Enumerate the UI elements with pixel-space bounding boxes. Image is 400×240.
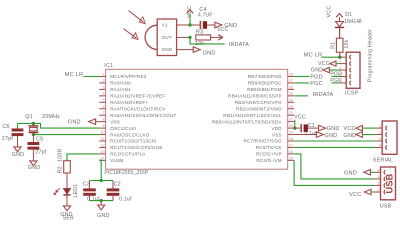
svg-text:RA1/AN1: RA1/AN1 xyxy=(110,87,131,92)
svg-text:SER: SER xyxy=(63,216,74,222)
SERIAL pin 3 xyxy=(376,137,387,143)
svg-text:OUT: OUT xyxy=(162,35,172,40)
IC1 pin 13 stub xyxy=(99,150,146,157)
svg-text:SERIAL: SERIAL xyxy=(373,158,393,164)
svg-text:0.1uf: 0.1uf xyxy=(87,196,100,202)
USB pin 2 xyxy=(374,182,385,188)
svg-text:VCC: VCC xyxy=(187,6,193,18)
IC1 pin 21 stub xyxy=(212,118,294,125)
ICSP pin 5 xyxy=(339,79,351,85)
svg-text:MC LR: MC LR xyxy=(304,53,322,59)
svg-text:9: 9 xyxy=(102,124,104,128)
svg-text:RA2/AN2/VREF-/CVREF: RA2/AN2/VREF-/CVREF xyxy=(110,94,165,99)
IC1 pin 3 stub xyxy=(99,85,131,92)
op-amp U1 IC1 PIC18F2550 body xyxy=(104,63,288,176)
wire RC7 to SERIAL pin 3 xyxy=(294,140,376,142)
svg-text:VCC: VCC xyxy=(343,126,355,132)
wire IR V+ to C4 xyxy=(177,24,200,26)
svg-text:5: 5 xyxy=(102,98,104,102)
IC1 pin 2 stub xyxy=(99,79,131,86)
IC1 pin 11 stub xyxy=(99,137,156,144)
svg-text:GND: GND xyxy=(324,133,337,139)
svg-text:MC LR: MC LR xyxy=(65,72,83,78)
svg-text:IRDATA: IRDATA xyxy=(229,42,249,48)
net label MCLR at pin 1 xyxy=(65,72,99,78)
svg-text:1: 1 xyxy=(377,188,379,192)
resistor R2 xyxy=(58,149,71,174)
svg-text:PGD: PGD xyxy=(310,75,323,81)
svg-text:VSS: VSS xyxy=(110,119,120,124)
svg-text:VSS: VSS xyxy=(272,132,282,137)
ground GND at C4 xyxy=(215,22,237,29)
svg-text:GND: GND xyxy=(203,50,216,56)
svg-text:21: 21 xyxy=(289,118,293,122)
svg-text:R2: R2 xyxy=(58,166,64,173)
ground GND at C1 xyxy=(319,125,340,132)
junction at IR V+ xyxy=(188,23,191,26)
ground GND at C5 xyxy=(28,161,41,171)
svg-text:11: 11 xyxy=(101,137,105,141)
supply VCC at D1 xyxy=(326,6,342,18)
svg-text:RA0/AN0: RA0/AN0 xyxy=(110,81,131,86)
junction crystal top xyxy=(32,122,35,125)
IC1 pin 17 stub xyxy=(256,143,294,150)
svg-text:1N4148: 1N4148 xyxy=(344,19,362,25)
junction crystal bottom xyxy=(32,133,35,136)
svg-text:GND: GND xyxy=(97,213,110,219)
IC1 pin 18 stub xyxy=(243,137,294,144)
svg-text:13: 13 xyxy=(100,150,104,154)
junction MCLR R1 xyxy=(338,56,341,59)
svg-text:6: 6 xyxy=(102,105,104,109)
svg-text:RC2/CCP1/P1A: RC2/CCP1/P1A xyxy=(110,152,146,157)
IC1 pin 10 stub xyxy=(99,131,150,138)
ground GND at pin 8 xyxy=(68,119,99,126)
SERIAL pin 4 xyxy=(376,144,387,150)
svg-text:V1: V1 xyxy=(162,23,168,28)
connector ICSP body xyxy=(345,29,373,97)
ground GND at SERIAL pin 2 xyxy=(343,132,376,139)
resistor R1 xyxy=(331,28,351,57)
svg-text:C6: C6 xyxy=(2,124,9,130)
svg-text:26: 26 xyxy=(289,85,293,89)
svg-text:Q1: Q1 xyxy=(25,114,33,120)
USB pin 3 xyxy=(374,175,385,181)
connector USB body xyxy=(380,167,396,210)
wire OSC2 net xyxy=(33,134,99,136)
supply VCC at USB pin 1 xyxy=(349,189,374,198)
svg-text:RC0/T1OSO/T13CKI: RC0/T1OSO/T13CKI xyxy=(110,139,156,144)
wire RC5 D+ to USB pin 3 xyxy=(294,154,374,179)
svg-text:27pf: 27pf xyxy=(35,150,47,156)
svg-text:GND: GND xyxy=(12,152,25,158)
svg-text:4: 4 xyxy=(379,144,381,148)
ground GND at LED1 xyxy=(60,206,74,222)
crystal Q1 xyxy=(25,114,60,135)
svg-text:10k: 10k xyxy=(344,39,350,48)
IC1 pin 12 stub xyxy=(99,143,162,150)
supply VCC at ICSP pin 2 xyxy=(318,61,340,67)
capacitor C1 xyxy=(295,123,317,137)
svg-text:22: 22 xyxy=(289,111,293,115)
supply VCC at R3 xyxy=(211,27,229,40)
IC1 pin 1 stub xyxy=(99,73,147,80)
wire OSC1 net xyxy=(18,123,100,128)
svg-text:C5: C5 xyxy=(36,136,43,142)
wire RC2 to R2 xyxy=(67,154,99,161)
svg-text:GND: GND xyxy=(68,120,81,126)
ICSP pin 3 xyxy=(339,66,351,72)
svg-text:2: 2 xyxy=(102,79,104,83)
svg-text:RB2/AN8/INT2/VMO: RB2/AN8/INT2/VMO xyxy=(236,106,282,111)
svg-text:27: 27 xyxy=(289,79,293,83)
svg-text:RC6/TX/CK: RC6/TX/CK xyxy=(256,145,283,150)
svg-text:R3: R3 xyxy=(196,30,203,36)
svg-text:1: 1 xyxy=(379,124,381,128)
svg-text:17: 17 xyxy=(289,143,293,147)
IC1 pin 19 stub xyxy=(272,131,294,138)
svg-text:4: 4 xyxy=(102,92,104,96)
ground GND at ICSP pin 3 xyxy=(311,67,340,73)
USB pin 1 xyxy=(374,188,385,194)
svg-text:4.7UF: 4.7UF xyxy=(198,12,213,18)
IC1 pin 4 stub xyxy=(99,92,165,99)
ICSP pin 4 xyxy=(339,73,351,79)
svg-text:ICSP: ICSP xyxy=(345,91,359,97)
wire PGC to ICSP pin 5 xyxy=(330,78,342,84)
svg-text:8: 8 xyxy=(102,118,104,122)
supply VCC at SERIAL pin 1 xyxy=(343,125,376,132)
svg-text:RB3/AN9/CCP2/VPO: RB3/AN9/CCP2/VPO xyxy=(235,100,282,105)
svg-text:3: 3 xyxy=(377,175,379,179)
junction cap bottom xyxy=(100,199,103,202)
ICSP pin 1 xyxy=(339,53,351,59)
wire IRDATA from pin 25 xyxy=(294,92,333,98)
IC1 pin 15 stub xyxy=(256,156,294,163)
svg-text:OSC1/CLKI: OSC1/CLKI xyxy=(110,126,136,131)
svg-text:7: 7 xyxy=(102,111,104,115)
svg-text:VCC: VCC xyxy=(217,27,228,33)
IC1 pin 27 stub xyxy=(248,79,294,86)
IC1 pin 6 stub xyxy=(99,105,166,112)
capacitor C3 xyxy=(83,181,100,203)
svg-text:USB: USB xyxy=(380,204,392,210)
IC1 pin 9 stub xyxy=(99,124,136,131)
svg-text:RC1/T1OSI/CCP2/UOE: RC1/T1OSI/CCP2/UOE xyxy=(110,145,162,150)
junction at IR OUT xyxy=(177,36,192,39)
svg-text:RB5/KBI1/PGM: RB5/KBI1/PGM xyxy=(247,87,282,92)
svg-text:IRDATA: IRDATA xyxy=(313,92,334,98)
svg-text:25: 25 xyxy=(289,92,293,96)
capacitor C6 xyxy=(2,123,24,146)
svg-text:RB6/KBI2/PGC: RB6/KBI2/PGC xyxy=(248,81,283,86)
wire PGC from pin 27 xyxy=(294,81,323,87)
wire cap tops xyxy=(90,180,114,182)
ground GND at caps xyxy=(97,201,110,219)
svg-text:VCC: VCC xyxy=(326,6,332,18)
svg-text:18: 18 xyxy=(289,137,293,141)
wire R2 to LED1 xyxy=(66,173,68,188)
capacitor C4 xyxy=(198,7,213,29)
svg-text:24: 24 xyxy=(289,98,293,102)
IC1 pin 16 stub xyxy=(256,150,294,157)
IC1 pin 20 stub xyxy=(271,124,294,131)
svg-text:VCC: VCC xyxy=(318,61,330,67)
svg-text:GND: GND xyxy=(343,133,356,139)
wire RC6 to SERIAL pin 4 xyxy=(294,146,376,148)
svg-text:15: 15 xyxy=(289,156,293,160)
ground GND at pin 19 xyxy=(294,132,337,139)
svg-text:0.1uf: 0.1uf xyxy=(305,131,318,137)
svg-text:PGD: PGD xyxy=(330,71,342,77)
IR light arrow 2 xyxy=(124,29,139,40)
junction at pin 20 xyxy=(293,126,296,129)
IC1 pin 25 stub xyxy=(228,92,294,99)
IR receiver module xyxy=(145,19,176,56)
svg-text:GND: GND xyxy=(344,171,357,177)
svg-text:R1: R1 xyxy=(331,42,337,49)
svg-text:C2: C2 xyxy=(114,182,121,188)
svg-text:VCC: VCC xyxy=(349,192,361,198)
svg-text:28: 28 xyxy=(289,73,293,77)
svg-text:RB7/KBI3/PGD: RB7/KBI3/PGD xyxy=(248,74,283,79)
ground GND at IR xyxy=(193,47,215,57)
svg-text:20MHz: 20MHz xyxy=(42,114,60,120)
svg-text:RA4/T0CKI/C1OUT/RCV: RA4/T0CKI/C1OUT/RCV xyxy=(110,106,166,111)
supply VCC at IR V+ xyxy=(187,6,194,25)
USB pin 4 xyxy=(374,169,385,175)
SERIAL pin 1 xyxy=(376,124,387,130)
IC1 pin 23 stub xyxy=(236,105,294,112)
svg-text:14: 14 xyxy=(100,156,104,160)
svg-text:3: 3 xyxy=(379,137,381,141)
svg-text:2: 2 xyxy=(379,131,381,135)
svg-text:RA3/AN3/VREF+: RA3/AN3/VREF+ xyxy=(110,100,148,105)
svg-text:2: 2 xyxy=(377,182,379,186)
LED LED1 xyxy=(54,184,79,198)
svg-text:D1: D1 xyxy=(345,12,352,18)
svg-text:RC4/D-/VM: RC4/D-/VM xyxy=(256,158,281,163)
wire IR OUT net IRDATA xyxy=(190,37,249,48)
svg-text:12: 12 xyxy=(100,143,104,147)
wire PGD to ICSP pin 4 xyxy=(330,71,342,77)
svg-text:VDD: VDD xyxy=(271,126,282,131)
svg-text:RA6/OSC2/CLKO: RA6/OSC2/CLKO xyxy=(110,132,150,137)
svg-text:IC1: IC1 xyxy=(104,63,113,69)
IC1 pin 14 stub xyxy=(99,156,123,163)
wire cap bottoms xyxy=(90,200,114,202)
IC1 pin 22 stub xyxy=(223,111,294,118)
svg-text:RB4/AN11/KBI0/CSSPP: RB4/AN11/KBI0/CSSPP xyxy=(228,94,282,99)
ICSP pin 2 xyxy=(339,60,351,66)
svg-text:PIC18F2550_ZDIP: PIC18F2550_ZDIP xyxy=(104,170,148,176)
svg-text:PGC: PGC xyxy=(310,81,323,87)
wire VUSB to caps xyxy=(99,160,101,180)
IC1 pin 8 stub xyxy=(99,118,120,125)
SERIAL pin 2 xyxy=(376,131,387,137)
diode D1 1N4148 xyxy=(335,12,362,38)
svg-text:3: 3 xyxy=(102,85,104,89)
svg-text:VUSB: VUSB xyxy=(110,158,123,163)
svg-text:19: 19 xyxy=(289,131,293,135)
capacitor C5 xyxy=(28,135,47,161)
svg-text:GND: GND xyxy=(311,68,324,74)
capacitor C2 xyxy=(107,181,132,203)
svg-text:Programming Header: Programming Header xyxy=(367,29,373,82)
svg-text:RC5/D+/VP: RC5/D+/VP xyxy=(256,152,282,157)
svg-text:23: 23 xyxy=(289,105,293,109)
svg-text:1: 1 xyxy=(102,73,104,77)
svg-text:20: 20 xyxy=(289,124,293,128)
IC1 pin 28 stub xyxy=(248,73,294,80)
svg-text:RA5/AN4/SS/HLVDIN/C2OUT: RA5/AN4/SS/HLVDIN/C2OUT xyxy=(110,113,176,118)
svg-text:27pf: 27pf xyxy=(2,136,14,142)
svg-text:GND: GND xyxy=(162,47,173,52)
wire C4 to GND xyxy=(207,24,214,26)
IC1 pin 7 stub xyxy=(99,111,176,118)
wire C1 to GND xyxy=(308,127,319,129)
wire IR GND pin xyxy=(177,49,194,51)
svg-text:PGC: PGC xyxy=(330,78,342,84)
junction cap top xyxy=(100,179,103,182)
IC1 pin 26 stub xyxy=(247,85,294,92)
svg-text:4: 4 xyxy=(377,169,379,173)
IC1 pin 24 stub xyxy=(235,98,294,105)
wire PGD from pin 28 xyxy=(294,75,323,81)
svg-text:VCC: VCC xyxy=(294,115,306,121)
resistor R3 xyxy=(195,30,211,48)
svg-text:RC7/RX/DT/SDO: RC7/RX/DT/SDO xyxy=(243,139,282,144)
svg-text:C3: C3 xyxy=(83,182,90,188)
ground GND at C6 xyxy=(12,147,25,158)
svg-text:100R: 100R xyxy=(58,149,64,162)
svg-text:RB1/AN10/INT1/SCK/SCL: RB1/AN10/INT1/SCK/SCL xyxy=(223,113,282,118)
svg-text:LED1: LED1 xyxy=(73,184,79,198)
supply VCC at pin 20 xyxy=(294,115,306,129)
ground GND at USB pin 4 xyxy=(344,170,374,177)
IC1 pin 5 stub xyxy=(99,98,148,105)
svg-text:RB0/AN12/INT0/FLT0/SDI/SDA: RB0/AN12/INT0/FLT0/SDI/SDA xyxy=(212,119,283,124)
svg-text:MCLR/VPP/RE3: MCLR/VPP/RE3 xyxy=(110,74,147,79)
net label MCLR at ICSP pin 1 xyxy=(304,53,340,59)
svg-text:GND: GND xyxy=(28,165,41,171)
svg-text:USB: USB xyxy=(384,173,394,193)
wire RC4 D- to USB pin 2 xyxy=(294,160,374,185)
IR light arrow 1 xyxy=(129,11,146,24)
svg-text:10: 10 xyxy=(100,131,104,135)
connector SERIAL body xyxy=(373,121,397,164)
svg-text:16: 16 xyxy=(289,150,293,154)
wire LED1 to ground xyxy=(66,196,68,206)
svg-text:0.1uf: 0.1uf xyxy=(119,196,132,202)
svg-text:GND: GND xyxy=(327,126,340,132)
